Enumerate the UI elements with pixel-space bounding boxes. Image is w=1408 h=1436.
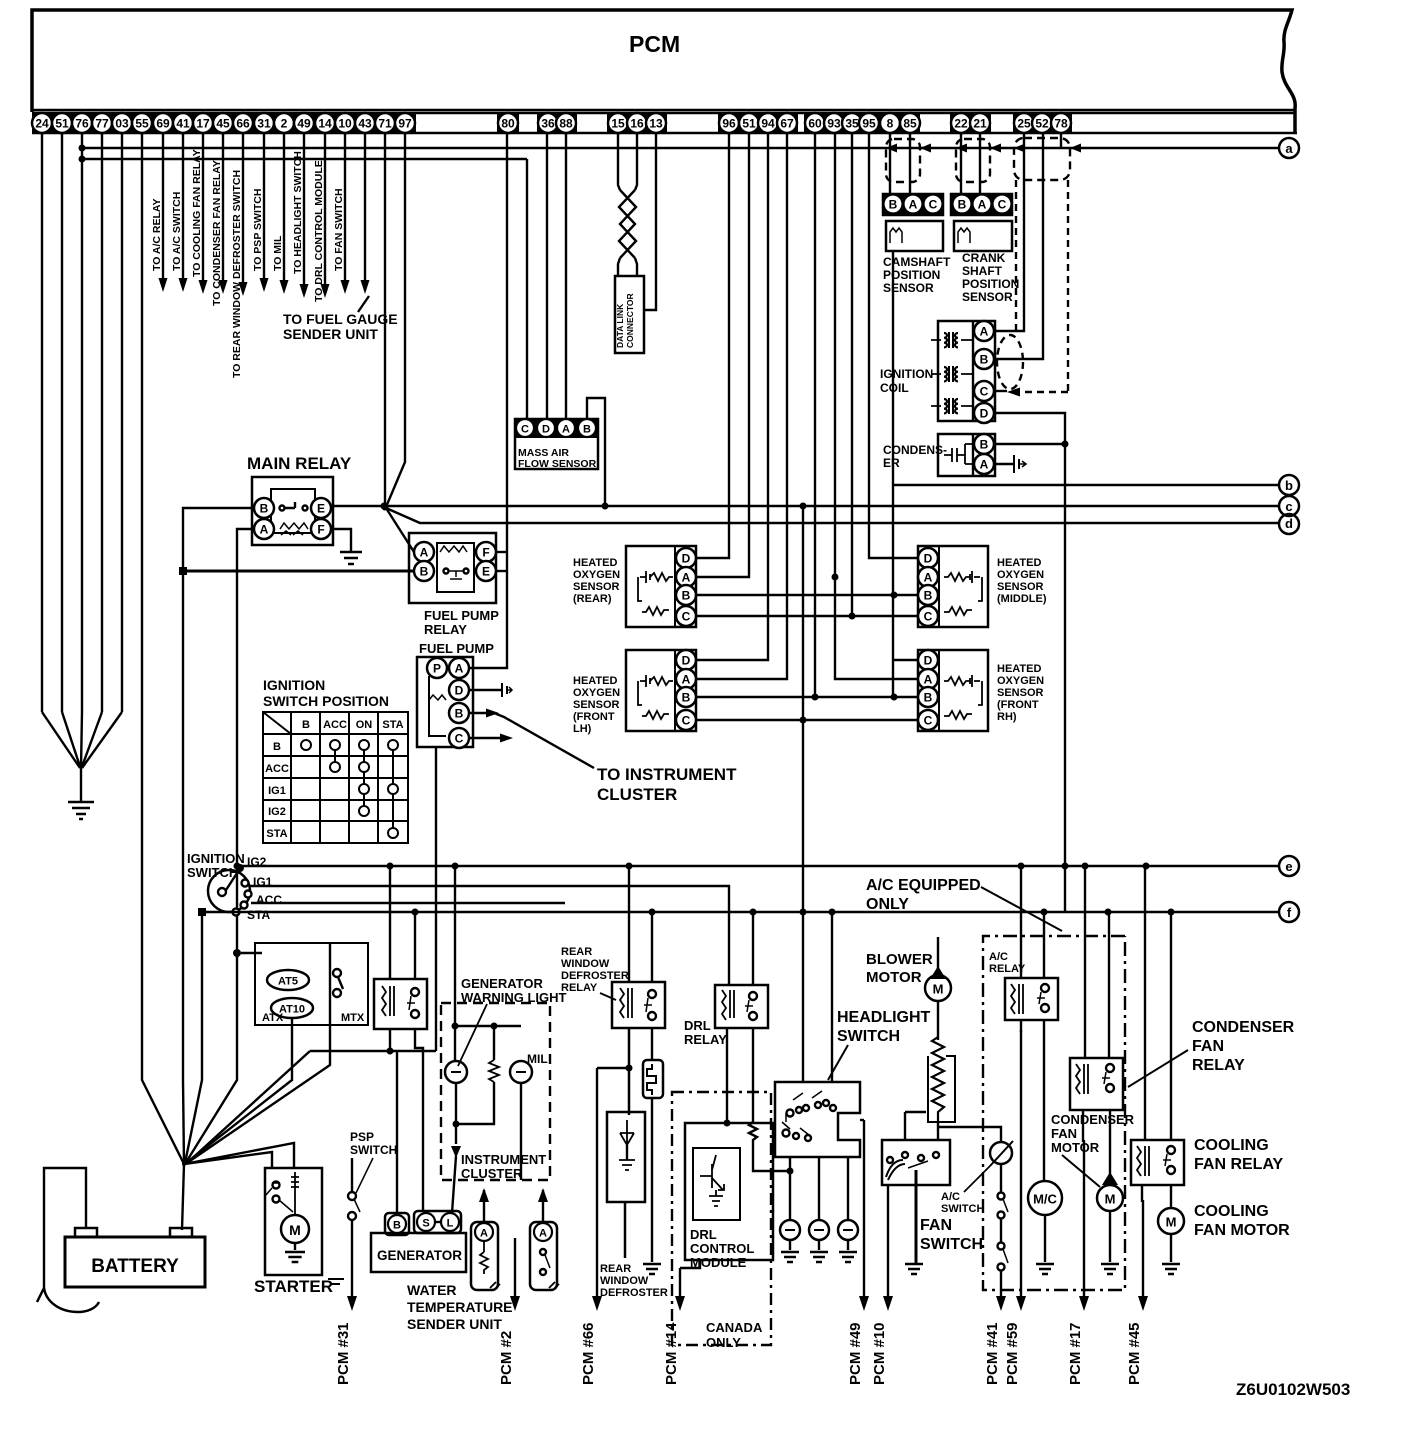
svg-text:FUEL PUMP: FUEL PUMP [424, 608, 499, 623]
wire pin 35 to HO2S C row [851, 134, 853, 616]
heated oxygen sensor middle [918, 546, 988, 627]
pin 55 [132, 113, 152, 133]
svg-text:SENSOR: SENSOR [962, 290, 1013, 304]
pin 41 [173, 113, 193, 133]
svg-text:(REAR): (REAR) [573, 593, 612, 605]
IGNITION SWITCH POSITION table [263, 677, 408, 843]
crankshaft position sensor shield (dashed) [956, 139, 990, 182]
svg-text:E: E [317, 502, 325, 516]
MAF pin C [516, 419, 534, 437]
wire pin 8 to camshaft sensor B [889, 134, 891, 194]
A/C switch contact chain [1000, 1164, 1002, 1193]
circuit breaker [643, 1060, 663, 1098]
node d [1279, 514, 1299, 534]
svg-text:ACC: ACC [323, 719, 347, 731]
wire condenser A to battery symbol [994, 463, 1014, 465]
wire condenser fan relay coil to IG2 [1084, 866, 1086, 1058]
generator pin S [417, 1213, 435, 1231]
wire bus a (shield drain) [79, 145, 1279, 152]
svg-text:FAN RELAY: FAN RELAY [1194, 1156, 1284, 1173]
wire A/C relay coil to IG2 [1020, 866, 1022, 978]
battery ground hook [37, 1288, 99, 1312]
svg-text:L: L [447, 1218, 454, 1230]
svg-text:A: A [924, 673, 933, 687]
wire resistor to fan switch and AC switch [938, 1122, 1001, 1142]
svg-text:FAN: FAN [1051, 1126, 1077, 1141]
svg-text:78: 78 [1054, 117, 1068, 131]
wire relay contact to generator S [415, 1029, 423, 1212]
shield around pins 25,52,78 (dashed) [1014, 138, 1070, 180]
svg-text:Z6U0102W503: Z6U0102W503 [1236, 1380, 1350, 1399]
svg-text:A: A [682, 571, 691, 585]
svg-text:IG1: IG1 [268, 785, 286, 797]
wire pin 88 to MAF A [565, 134, 567, 419]
MIL bulb [510, 1061, 532, 1083]
wire generator B feed [310, 1051, 436, 1212]
svg-text:ATX: ATX [262, 1012, 284, 1024]
wire pin 60 to HO2S B row [814, 134, 816, 697]
svg-text:31: 31 [257, 117, 271, 131]
vertical wire b corner through HO2S rows [892, 251, 894, 697]
svg-text:C: C [924, 714, 933, 728]
fuel pump relay pin E [476, 561, 496, 581]
svg-text:(FRONT: (FRONT [997, 699, 1039, 711]
wire HO2S LH C row to RH [696, 719, 918, 721]
wire main relay F to ground [331, 529, 351, 552]
svg-text:TO FAN SWITCH: TO FAN SWITCH [333, 188, 345, 271]
svg-text:D: D [455, 684, 464, 698]
svg-text:M: M [289, 1222, 301, 1238]
wire pin 21 to crankshaft sensor A [979, 134, 981, 194]
wire b bus [894, 484, 1278, 486]
wire TO FUEL GAUGE SENDER UNIT [283, 134, 398, 342]
A/C relay [1005, 978, 1058, 1020]
svg-text:GENERATOR: GENERATOR [461, 976, 543, 991]
svg-text:ONLY: ONLY [866, 896, 909, 913]
pin 24 [32, 113, 52, 133]
heated oxygen sensor front LH pin D [676, 650, 696, 670]
condenser fan relay [1070, 1058, 1123, 1110]
wire pin 36 to MAF D [546, 134, 548, 419]
wire relay coil bottom [389, 1029, 391, 1051]
svg-text:B: B [273, 741, 281, 753]
svg-text:PCM #14: PCM #14 [663, 1322, 680, 1385]
headlamp bulb 2 [809, 1220, 829, 1240]
svg-text:80: 80 [501, 117, 515, 131]
svg-text:D: D [924, 552, 933, 566]
svg-text:FAN MOTOR: FAN MOTOR [1194, 1222, 1290, 1239]
svg-text:PCM #17: PCM #17 [1067, 1322, 1084, 1385]
svg-text:TO COOLING FAN RELAY: TO COOLING FAN RELAY [191, 149, 203, 277]
pin 22 [951, 113, 971, 133]
svg-text:B: B [260, 502, 269, 516]
PCM box [32, 10, 1295, 133]
svg-text:a: a [1285, 141, 1293, 156]
svg-text:B: B [958, 198, 967, 212]
pin 88 [556, 113, 576, 133]
svg-text:STARTER: STARTER [254, 1277, 333, 1296]
wire condenser fan relay contact to STA [1108, 912, 1110, 1058]
svg-text:F: F [482, 546, 489, 560]
svg-text:F: F [317, 523, 324, 537]
pin 80 [498, 113, 518, 133]
svg-text:43: 43 [358, 117, 372, 131]
svg-text:D: D [980, 407, 989, 421]
twisted pair pins 15,16 to DLC [618, 134, 637, 276]
wire ACC stub [251, 902, 565, 904]
headlamp wires [790, 1157, 848, 1221]
svg-text:ACC: ACC [256, 893, 282, 907]
wire pin 85 to camshaft sensor A [909, 134, 911, 194]
wire idle switch to cluster arrow [538, 1188, 548, 1222]
wire pin 94 to HO2S LH D [696, 134, 768, 660]
camshaft pin B [884, 195, 903, 214]
svg-text:B: B [889, 198, 898, 212]
svg-text:OXYGEN: OXYGEN [573, 569, 620, 581]
svg-text:A: A [978, 198, 987, 212]
wire A/C relay contact to MC [1043, 1020, 1045, 1181]
svg-text:c: c [1285, 499, 1292, 514]
wire condenser B to right column [994, 443, 1065, 445]
svg-text:SWITCH: SWITCH [941, 1203, 984, 1215]
wire PCM #17 [1067, 1140, 1089, 1385]
svg-text:A: A [924, 571, 933, 585]
wire condenser fan motor ground [1109, 1211, 1111, 1262]
wire HO2S B row [696, 594, 918, 596]
wire branch to PCM66 [597, 1067, 629, 1069]
wire A/C relay coil to PCM59 [1020, 1020, 1022, 1032]
pin 21 [970, 113, 990, 133]
svg-text:TO CONDENSER FAN RELAY: TO CONDENSER FAN RELAY [211, 160, 223, 306]
unnamed relay (circuit opening) [374, 979, 427, 1029]
svg-text:TEMPERATURE: TEMPERATURE [407, 1299, 513, 1315]
wire DRL relay contact to STA [752, 912, 754, 985]
svg-text:SWITCH POSITION: SWITCH POSITION [263, 693, 389, 709]
instrument cluster (dashed box) [441, 1003, 550, 1180]
svg-text:10: 10 [338, 117, 352, 131]
ignition coil pin C [974, 381, 994, 401]
wire PCM #59 [1004, 1030, 1026, 1385]
fuel pump pin C [449, 728, 469, 748]
pin 97 [395, 113, 415, 133]
pin 35 [842, 113, 862, 133]
svg-text:CRANK: CRANK [962, 251, 1006, 265]
svg-text:C: C [521, 424, 529, 436]
pin 2 [274, 113, 294, 133]
pin 17 [193, 113, 213, 133]
TO-arrow wires [151, 134, 398, 378]
blower resistor [932, 1037, 944, 1122]
CANADA ONLY dashed box [672, 1092, 771, 1345]
svg-text:MTX: MTX [341, 1012, 365, 1024]
wire relay coil to IG2 [389, 866, 391, 979]
node b [1279, 475, 1299, 495]
A/C switch [964, 1141, 1013, 1192]
svg-text:BLOWER: BLOWER [866, 951, 933, 968]
wire MTX switch down to bundle [187, 1025, 330, 1163]
svg-text:16: 16 [630, 117, 644, 131]
svg-text:35: 35 [845, 117, 859, 131]
svg-text:PCM #10: PCM #10 [871, 1322, 888, 1385]
svg-text:FLOW SENSOR: FLOW SENSOR [518, 458, 597, 470]
camshaft pin A [904, 195, 923, 214]
ignition coil pin A [974, 321, 994, 341]
svg-text:A: A [682, 673, 691, 687]
fuel pump [417, 657, 473, 747]
svg-text:B: B [393, 1220, 401, 1232]
pin 67 [777, 113, 797, 133]
leader generator warning light [458, 1004, 487, 1066]
svg-text:REAR: REAR [600, 1263, 631, 1275]
svg-text:B: B [924, 691, 933, 705]
pin 15 [608, 113, 628, 133]
svg-text:CANADA: CANADA [706, 1320, 763, 1335]
svg-text:TO DRL CONTROL MODULE: TO DRL CONTROL MODULE [313, 160, 325, 302]
svg-text:PCM #2: PCM #2 [498, 1331, 515, 1385]
svg-text:WINDOW: WINDOW [600, 1275, 649, 1287]
svg-text:96: 96 [722, 117, 736, 131]
pin 51 [739, 113, 759, 133]
wire TO A/C RELAY [151, 134, 168, 292]
svg-text:MOTOR: MOTOR [866, 969, 922, 986]
condenser fan motor [1097, 1172, 1123, 1211]
heated oxygen sensor front LH pin A [676, 669, 696, 689]
svg-text:85: 85 [903, 117, 917, 131]
svg-text:INSTRUMENT: INSTRUMENT [461, 1152, 546, 1167]
svg-text:95: 95 [862, 117, 876, 131]
wire pin 51b to HO2S rear A [696, 134, 749, 577]
wire fuel pump C arrow [469, 737, 500, 739]
generator warning light bulb [445, 1061, 467, 1083]
node bundle convergence [182, 1162, 186, 1166]
wire PCM #66 [580, 1068, 602, 1385]
svg-text:A: A [420, 546, 429, 560]
svg-text:52: 52 [1035, 117, 1049, 131]
svg-text:MAIN RELAY: MAIN RELAY [247, 454, 352, 473]
wire IG2 bus to node e [240, 865, 1278, 867]
camshaft position sensor [883, 194, 943, 251]
svg-text:17: 17 [196, 117, 210, 131]
ignition coil transformer 3 [931, 405, 973, 407]
heated oxygen sensor rear pin C [676, 606, 696, 626]
svg-text:DEFROSTER: DEFROSTER [561, 970, 629, 982]
svg-text:PCM: PCM [629, 31, 680, 57]
DRL relay [715, 985, 768, 1028]
svg-text:FUEL PUMP: FUEL PUMP [419, 641, 494, 656]
svg-text:B: B [682, 691, 691, 705]
svg-text:PCM #66: PCM #66 [580, 1322, 597, 1385]
pin 60 [805, 113, 825, 133]
svg-text:D: D [924, 654, 933, 668]
wire DRL relay coil down to module [726, 1028, 728, 1123]
wire headlight switch right to PCM49 [860, 1119, 864, 1121]
svg-text:HEATED: HEATED [573, 675, 617, 687]
svg-text:PCM #45: PCM #45 [1126, 1322, 1143, 1385]
svg-text:SENDER UNIT: SENDER UNIT [283, 326, 378, 342]
svg-text:RELAY: RELAY [424, 622, 467, 637]
main relay pin E [311, 498, 331, 518]
svg-text:STA: STA [266, 828, 287, 840]
FUEL PUMP RELAY [409, 533, 496, 603]
svg-text:ACC: ACC [265, 763, 289, 775]
svg-text:TO REAR WINDOW DEFROSTER SWITC: TO REAR WINDOW DEFROSTER SWITCH [231, 170, 243, 378]
wire PCM #31 [335, 1220, 357, 1385]
wire TO HEADLIGHT SWITCH [292, 134, 309, 298]
M/C compressor clutch [1028, 1181, 1062, 1215]
wire ignition coil D to right column [994, 413, 1065, 912]
svg-text:24: 24 [35, 117, 49, 131]
wire PCM #45 [1126, 1200, 1148, 1385]
svg-text:8: 8 [887, 117, 894, 131]
svg-text:SENSOR: SENSOR [883, 281, 934, 295]
ATX/MTX selector box [255, 943, 368, 1025]
svg-text:SWITCH: SWITCH [837, 1028, 900, 1045]
svg-text:HEADLIGHT: HEADLIGHT [837, 1009, 931, 1026]
wire STA bus to node f [202, 911, 1278, 913]
heated oxygen sensor middle pin D [918, 548, 938, 568]
svg-text:B: B [302, 719, 310, 731]
svg-text:B: B [980, 353, 989, 367]
svg-text:25: 25 [1017, 117, 1031, 131]
wire MC ground [1044, 1215, 1046, 1262]
svg-text:OXYGEN: OXYGEN [573, 687, 620, 699]
A/C equipped dashed boundary [983, 936, 1125, 1290]
pin 43 [355, 113, 375, 133]
svg-text:51: 51 [742, 117, 756, 131]
svg-text:94: 94 [761, 117, 775, 131]
wire ATX feed from main relay A column [237, 953, 267, 980]
node e [1279, 856, 1299, 876]
wire pin 97 diagonal to junction [386, 134, 405, 507]
wire cooling fan relay contact to STA [1170, 912, 1172, 1140]
wire pin 96 to HO2S rear D [696, 134, 729, 558]
svg-text:B: B [583, 424, 591, 436]
svg-text:CLUSTER: CLUSTER [597, 785, 677, 804]
wire relay contact to cooling fan motor [1170, 1185, 1172, 1208]
wire cooling fan relay coil to PCM45 [1141, 1185, 1143, 1202]
svg-text:PCM #31: PCM #31 [335, 1322, 352, 1385]
MAF pin B [578, 419, 596, 437]
pin 66 [233, 113, 253, 133]
ground (left bundle) [68, 802, 94, 819]
cooling fan relay [1131, 1140, 1184, 1185]
svg-text:M: M [933, 982, 944, 997]
svg-text:CONTROL: CONTROL [690, 1241, 754, 1256]
pin 8 [880, 113, 900, 133]
headlamp bulb 3 [838, 1220, 858, 1240]
svg-text:IG2: IG2 [268, 806, 286, 818]
wire TO MIL [272, 134, 289, 294]
node cluster top row [455, 1025, 521, 1027]
wire IG1 to DRL relay [249, 886, 729, 985]
fuel pump relay pin B [414, 561, 434, 581]
svg-text:B: B [420, 565, 429, 579]
wire warn light down to generator L [452, 1083, 456, 1213]
heated oxygen sensor front RH pin C [918, 710, 938, 730]
svg-text:TO A/C SWITCH: TO A/C SWITCH [171, 192, 183, 271]
svg-text:D: D [682, 654, 691, 668]
svg-text:FAN: FAN [1192, 1038, 1224, 1055]
heated oxygen sensor middle pin A [918, 567, 938, 587]
vertical wire from c bus through HO2S C row to STA bus to headlight switch [802, 506, 804, 1082]
pin 49 [294, 113, 314, 133]
fuel pump relay pin A [414, 542, 434, 562]
svg-text:71: 71 [378, 117, 392, 131]
svg-text:IGNITION: IGNITION [263, 677, 325, 693]
svg-text:DRL: DRL [690, 1227, 717, 1242]
wire pin 95 to HO2S middle D [869, 134, 918, 558]
svg-text:DATA LINK: DATA LINK [615, 303, 625, 348]
svg-text:HEATED: HEATED [573, 557, 617, 569]
svg-text:STA: STA [382, 719, 403, 731]
svg-text:IGNITION: IGNITION [880, 367, 933, 381]
pin 78 [1051, 113, 1071, 133]
svg-text:67: 67 [780, 117, 794, 131]
wire PCM #10 [871, 1185, 893, 1385]
svg-text:SENSOR: SENSOR [997, 581, 1044, 593]
svg-text:21: 21 [973, 117, 987, 131]
svg-text:(MIDDLE): (MIDDLE) [997, 593, 1047, 605]
svg-text:OXYGEN: OXYGEN [997, 569, 1044, 581]
svg-text:M/C: M/C [1033, 1192, 1057, 1207]
svg-text:M: M [1166, 1215, 1177, 1230]
pin 16 [627, 113, 647, 133]
svg-text:REAR: REAR [561, 946, 592, 958]
svg-text:TO PSP SWITCH: TO PSP SWITCH [252, 189, 264, 271]
svg-text:13: 13 [649, 117, 663, 131]
wire fan switch ground [915, 1170, 918, 1264]
svg-text:MOTOR: MOTOR [1051, 1140, 1100, 1155]
ignition switch [208, 864, 252, 916]
svg-text:POSITION: POSITION [883, 268, 940, 282]
node c [1279, 496, 1299, 516]
camshaft pin C [924, 195, 943, 214]
svg-text:SWITCH: SWITCH [350, 1143, 397, 1157]
svg-text:M: M [1105, 1192, 1116, 1207]
svg-text:A: A [480, 1228, 488, 1240]
ground (main relay F) [340, 552, 362, 564]
idle switch unit [530, 1222, 559, 1290]
wire blower motor to resistor [937, 1001, 939, 1040]
svg-text:TO MIL: TO MIL [272, 235, 284, 271]
data link connector [615, 276, 644, 353]
heated oxygen sensor front RH pin D [918, 650, 938, 670]
svg-text:B: B [455, 707, 464, 721]
svg-text:CONDENSER: CONDENSER [1051, 1112, 1135, 1127]
svg-text:SWITCH: SWITCH [920, 1236, 983, 1253]
generator pin B [388, 1215, 406, 1233]
pin 10 [335, 113, 355, 133]
fuel pump pin B [449, 703, 469, 723]
svg-text:SENSOR: SENSOR [573, 581, 620, 593]
svg-text:A/C: A/C [941, 1191, 960, 1203]
wire TO PSP SWITCH [252, 134, 269, 292]
svg-text:FAN: FAN [920, 1217, 952, 1234]
wire A/C relay contact to STA [1043, 912, 1045, 978]
wire pin 80 down to fuel pump A [470, 134, 507, 668]
svg-text:77: 77 [95, 117, 109, 131]
wire fuel pump D to ground [469, 689, 502, 691]
wire AT10 down to bundle [186, 1018, 292, 1163]
svg-text:TO HEADLIGHT SWITCH: TO HEADLIGHT SWITCH [292, 151, 304, 274]
crankshaft pin B [953, 195, 972, 214]
svg-text:CONNECTOR: CONNECTOR [625, 293, 635, 348]
rear window defroster relay [612, 982, 665, 1028]
svg-text:RELAY: RELAY [561, 982, 598, 994]
heated oxygen sensor middle pin B [918, 585, 938, 605]
ignition coil [938, 321, 995, 421]
wire relay contact to STA [414, 912, 416, 979]
